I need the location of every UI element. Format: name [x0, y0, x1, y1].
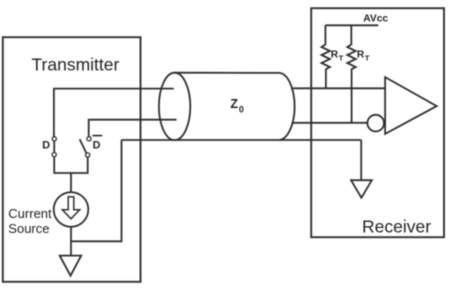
svg-text:Receiver: Receiver [362, 216, 431, 236]
label RT2 [357, 49, 370, 62]
svg-text:T: T [339, 53, 344, 62]
current source I1 circle [54, 192, 89, 227]
wire switch outputs junction [54, 157, 87, 173]
transmitter box [3, 37, 141, 282]
svg-text:Current: Current [8, 206, 52, 221]
svg-text:D: D [42, 139, 50, 151]
label Current Source [8, 206, 52, 236]
wire lower conductor right [292, 122, 368, 124]
transmission line cylinder left ellipse [159, 73, 190, 140]
label RT1 [331, 49, 344, 62]
svg-text:0: 0 [239, 105, 244, 115]
resistor RT2 [347, 25, 355, 123]
switch D-bar lever (open) [80, 139, 87, 153]
svg-text:R: R [331, 49, 339, 60]
wire upper conductor left [54, 89, 174, 138]
transmission line cylinder top [175, 72, 280, 74]
svg-text:AVcc: AVcc [363, 14, 388, 25]
label Z0 [230, 97, 244, 114]
label D-bar [92, 136, 102, 152]
switch D-bar bottom contact [86, 153, 90, 157]
switch D top contact [52, 137, 56, 141]
svg-text:D: D [93, 139, 101, 151]
ground receiver [351, 180, 372, 198]
AVcc rail [325, 24, 378, 26]
transmission line cylinder bottom / shield wire [122, 139, 362, 141]
op-amp inverting input bubble [367, 115, 384, 132]
transmission line cylinder right arc [280, 73, 295, 140]
ground transmitter [60, 256, 81, 276]
resistor RT1 [322, 25, 330, 88]
switch D bottom contact [52, 153, 56, 157]
wire junction to current source [70, 173, 72, 192]
svg-text:Z: Z [230, 97, 238, 111]
wire bottom return [71, 140, 122, 241]
op-amp U1 triangle [385, 77, 437, 134]
svg-text:Source: Source [8, 221, 49, 236]
switch D lever (closed) [53, 139, 55, 155]
receiver box [311, 8, 444, 237]
wire lower conductor left [89, 120, 177, 138]
wire upper conductor right [291, 87, 385, 89]
svg-text:R: R [357, 49, 365, 60]
wire shield to receiver ground [360, 140, 362, 180]
svg-text:Transmitter: Transmitter [32, 54, 120, 74]
current source arrow [62, 197, 79, 219]
wire current source to ground [70, 227, 72, 256]
svg-text:T: T [365, 53, 370, 62]
switch D-bar top contact [87, 137, 91, 141]
